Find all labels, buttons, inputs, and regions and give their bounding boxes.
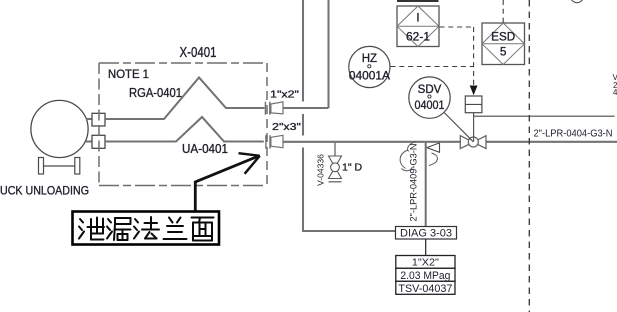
wire riser to top: [327, 0, 329, 108]
package boundary X-0401 top edge: [99, 62, 267, 64]
svg-text:HZ: HZ: [362, 53, 377, 65]
axle wire: [44, 165, 75, 167]
package boundary X-0401 bottom edge: [99, 185, 267, 187]
wire branch vertical x303 middle: [302, 114, 304, 136]
reducer 1"x2" body: [271, 102, 283, 114]
svg-text:1"X2": 1"X2": [412, 257, 439, 269]
svg-text:5: 5: [500, 47, 506, 59]
pipe RGA-0401 zigzag wire: [105, 78, 265, 120]
flow flag triangle: [427, 143, 440, 152]
tank T (truck): [31, 100, 88, 157]
instrument signal dashed HZ to junction: [391, 66, 474, 68]
wire tank to nozzle 2: [86, 140, 92, 142]
svg-text:62-1: 62-1: [406, 32, 430, 44]
thin line from actuator to right: [474, 115, 615, 117]
wire tank to nozzle 1: [86, 118, 92, 120]
wire main pipe to valve: [283, 141, 460, 143]
glyph 兰: [164, 218, 187, 240]
svg-text:4: 4: [613, 88, 617, 97]
svg-text:DIAG 3-03: DIAG 3-03: [400, 228, 452, 240]
instrument signal dashed junction vertical: [473, 27, 475, 85]
reducer 1"x2" flange bars: [264, 102, 266, 115]
valve SDV-04001 body: [460, 136, 473, 149]
svg-text:2.03 MPag: 2.03 MPag: [400, 270, 450, 282]
wire DIAG to spec table: [425, 239, 427, 256]
svg-text:04001A: 04001A: [349, 71, 390, 83]
valve V-04336 end cap: [329, 181, 342, 183]
S-break symbol left arc: [408, 142, 416, 152]
svg-text:RGA-0401: RGA-0401: [129, 86, 182, 100]
partial box above 62-1: [397, 0, 439, 2]
pipe UA-0401 zigzag wire: [105, 117, 264, 142]
instrument HZ-04001A: [349, 46, 390, 87]
svg-text:UA-0401: UA-0401: [182, 142, 228, 156]
DIAG 3-03 box: [396, 227, 457, 240]
arrowhead barb upper: [239, 153, 260, 156]
svg-text:1" D: 1" D: [342, 162, 362, 174]
reducer 2"x3" body: [271, 135, 283, 147]
svg-text:NOTE 1: NOTE 1: [108, 67, 149, 81]
wire branch vertical x303 lower: [302, 148, 304, 231]
battery-limit long dashed line: [528, 0, 530, 312]
reducer 2"x3" flange bars: [265, 135, 267, 149]
solenoid arrow: [470, 86, 478, 96]
svg-text:TSV-04037: TSV-04037: [398, 283, 452, 295]
wire branch vertical x303 upper: [302, 0, 304, 102]
wire drop to DIAG 2"-LPR-0409-G3-N: [425, 143, 427, 227]
actuator on SDV-04001: [465, 96, 482, 113]
svg-text:SDV: SDV: [418, 84, 442, 96]
svg-text:V-04336: V-04336: [316, 154, 326, 186]
top right arc fragment: [572, 0, 583, 3]
package boundary X-0401 right edge: [266, 63, 268, 186]
spec table TSV-04037: [396, 256, 455, 295]
instrument signal dashed 62-1 to junction: [440, 26, 474, 28]
valve V-04336: [329, 156, 342, 167]
wire bottom run to DIAG: [302, 230, 396, 232]
glyph 漏: [107, 218, 131, 240]
arrowhead barb lower: [245, 156, 260, 174]
valve stem wire: [473, 113, 475, 142]
svg-text:2"x3": 2"x3": [272, 121, 301, 133]
leader SDV tag to valve: [444, 113, 473, 142]
annotation box 泄漏法兰面: [73, 212, 220, 245]
signal dashed above ESD: [502, 0, 504, 23]
glyph 法: [134, 217, 159, 239]
svg-text:UCK UNLOADING: UCK UNLOADING: [0, 184, 89, 198]
hand-drawn CJK glyphs: [79, 217, 214, 241]
S-break symbol right arc: [429, 153, 437, 166]
wire pipe after reducer 1: [283, 107, 329, 109]
glyph 面: [192, 218, 214, 241]
wheel left: [39, 158, 44, 175]
annotation arrow leader: [195, 156, 259, 211]
wheel right: [75, 158, 80, 175]
svg-text:2"-LPR-0409-G3-N: 2"-LPR-0409-G3-N: [409, 143, 420, 221]
svg-text:2"-LPR-0404-G3-N: 2"-LPR-0404-G3-N: [534, 128, 613, 140]
interlock box 62-1: [397, 6, 439, 47]
nozzle flange N1: [92, 113, 105, 126]
svg-text:ESD: ESD: [491, 32, 515, 44]
svg-text:X-0401: X-0401: [180, 45, 217, 61]
svg-text:I: I: [416, 13, 419, 25]
svg-text:1"x2": 1"x2": [270, 89, 299, 101]
nozzle flange N2: [92, 135, 105, 148]
instrument SDV-04001 tag circle: [409, 77, 450, 118]
svg-text:04001: 04001: [415, 100, 445, 112]
wire main pipe after valve 2"-LPR-0404-G3-N: [486, 141, 617, 143]
package boundary X-0401 left edge: [98, 63, 100, 186]
interlock box ESD 5: [482, 23, 525, 65]
glyph 泄: [79, 218, 104, 240]
valve V-04336 stub wire: [334, 143, 336, 156]
